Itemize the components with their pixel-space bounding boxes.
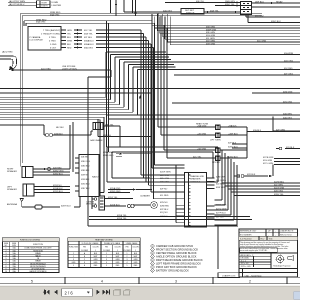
svg-text:HEAT MAP LEGEND: HEAT MAP LEGEND xyxy=(95,239,113,242)
svg-text:(A) 62TGB BLU: (A) 62TGB BLU xyxy=(9,3,25,6)
table fuse block legend xyxy=(3,238,60,273)
svg-text:62YP BLU: 62YP BLU xyxy=(216,212,226,214)
svg-text:MICROPHONE AUX: MICROPHONE AUX xyxy=(30,265,46,268)
svg-text:62YB GRN: 62YB GRN xyxy=(263,157,274,159)
svg-text:LOADER H2O E: LOADER H2O E xyxy=(280,230,294,233)
camera pin wires xyxy=(61,30,66,48)
title block xyxy=(239,229,298,277)
svg-text:CARRIER CAB GROUND STUD: CARRIER CAB GROUND STUD xyxy=(156,244,193,248)
svg-text:MICROPHONE AUX: MICROPHONE AUX xyxy=(30,262,46,265)
svg-text:FRONT SECTION GROUND BLOCK: FRONT SECTION GROUND BLOCK xyxy=(156,247,198,251)
svg-text:62BA GND: 62BA GND xyxy=(103,151,114,154)
svg-text:LIFT TURN: LIFT TURN xyxy=(210,139,221,141)
svg-text:62M GRN: 62M GRN xyxy=(216,176,226,178)
svg-text:62SF NO: 62SF NO xyxy=(53,185,62,187)
loader lug box xyxy=(218,273,240,278)
svg-text:FUNCTION: FUNCTION xyxy=(33,244,43,246)
riser arrow xyxy=(115,2,117,5)
svg-text:1: 1 xyxy=(95,250,96,252)
svg-text:WHT: WHT xyxy=(134,256,138,258)
wire 62A BLK out xyxy=(247,131,300,133)
svg-text:62B RED: 62B RED xyxy=(53,167,62,169)
svg-text:1: 1 xyxy=(73,253,74,255)
btn prev page xyxy=(54,290,57,295)
staircase risers to left bundle xyxy=(106,52,138,115)
svg-text:1: 1 xyxy=(127,253,128,255)
junction dot riser xyxy=(135,13,137,15)
svg-text:5: 5 xyxy=(152,260,153,262)
svg-text:62T BLK: 62T BLK xyxy=(216,216,225,218)
wire bracket right 62P xyxy=(273,117,300,132)
svg-text:CLEANER: CLEANER xyxy=(140,195,150,198)
svg-text:62ZW BLU: 62ZW BLU xyxy=(274,181,285,183)
svg-text:4BC BLK: 4BC BLK xyxy=(56,127,65,129)
btn next page xyxy=(97,290,100,295)
svg-text:LEFT REAR FRAME GROUND BLOCK: LEFT REAR FRAME GROUND BLOCK xyxy=(156,261,201,265)
svg-text:63BC YEL: 63BC YEL xyxy=(225,4,236,6)
svg-text:3: 3 xyxy=(106,259,107,261)
junction dot xyxy=(12,69,14,71)
wire 65A ORG xyxy=(22,15,262,17)
svg-text:62BU ORG: 62BU ORG xyxy=(81,161,91,163)
big rect pair top-left corner xyxy=(107,147,218,152)
frame bottom line xyxy=(0,277,300,284)
wire loader drop xyxy=(217,226,219,269)
wire 62A ORG to switch xyxy=(124,11,181,13)
svg-text:62DB YEL: 62DB YEL xyxy=(117,215,128,217)
svg-text:61D GRN: 61D GRN xyxy=(257,41,267,43)
labels top-left xyxy=(9,0,61,24)
svg-text:62B ORG: 62B ORG xyxy=(274,190,283,192)
fan horizontals xyxy=(106,52,300,70)
wire 63W YEL from switch xyxy=(204,11,240,13)
svg-text:62SB BLK: 62SB BLK xyxy=(53,188,63,190)
svg-text:62BG GND: 62BG GND xyxy=(110,191,121,193)
relay K1 xyxy=(241,2,252,15)
svg-text:CHARGE GRD: CHARGE GRD xyxy=(190,175,205,178)
svg-text:WHT: WHT xyxy=(116,256,120,258)
wire 61 long 103 xyxy=(172,102,300,104)
svg-text:62P BLU: 62P BLU xyxy=(160,209,169,211)
wire 62DF YEL xyxy=(105,198,134,200)
svg-text:+NB GRN: +NB GRN xyxy=(197,125,207,127)
antenna plug xyxy=(35,205,42,209)
svg-text:WRN: WRN xyxy=(67,40,72,42)
svg-text:CAD - Solid Edge: CAD - Solid Edge xyxy=(245,274,263,277)
svg-text:62BD BLK: 62BD BLK xyxy=(228,156,238,158)
big rect bottoms xyxy=(107,178,218,182)
svg-text:CLOSER: CLOSER xyxy=(81,250,89,252)
svg-text:GAS DISABLE: GAS DISABLE xyxy=(90,139,103,142)
charge guard left pin bus xyxy=(175,165,177,223)
svg-text:62N NO: 62N NO xyxy=(160,202,168,204)
svg-text:5: 5 xyxy=(127,265,128,267)
wire 63BC BLK xyxy=(248,15,300,23)
btn snapshot disabled xyxy=(114,289,131,295)
svg-text:DECIMAL: DECIMAL xyxy=(241,257,249,260)
svg-text:63A ORG: 63A ORG xyxy=(84,46,93,49)
wire bend to lower left xyxy=(24,21,26,26)
op bracket strobe arrow xyxy=(0,56,17,69)
wire 62T left xyxy=(0,92,152,94)
svg-text:10: 10 xyxy=(5,271,7,273)
wire 62DA GND xyxy=(108,189,133,191)
wire 62A GRN xyxy=(107,114,301,116)
ground legend list xyxy=(151,244,203,273)
CO detector block xyxy=(99,196,105,210)
svg-text:SWITCH: SWITCH xyxy=(186,13,195,15)
svg-text:3: 3 xyxy=(127,259,128,261)
wire 62YL drop xyxy=(272,165,274,177)
CO labels xyxy=(86,151,150,220)
right bundle labels xyxy=(206,27,294,132)
scroll corner grip xyxy=(294,292,301,300)
svg-text:7 TRIG (BACKUP): 7 TRIG (BACKUP) xyxy=(43,29,60,32)
svg-text:4HD YEL: 4HD YEL xyxy=(105,124,114,126)
svg-text:62F NO: 62F NO xyxy=(160,188,168,190)
circle spk xyxy=(48,168,51,171)
svg-text:62BY BLU: 62BY BLU xyxy=(61,205,71,207)
wire bottom bus xyxy=(88,175,238,226)
wire w3 bends down xyxy=(152,21,185,168)
svg-text:5: 5 xyxy=(73,265,74,267)
arrow 62R xyxy=(269,175,272,177)
svg-text:62C YEL: 62C YEL xyxy=(193,156,202,158)
btn first page xyxy=(43,290,50,295)
charge guard right pin wires xyxy=(207,178,215,218)
wire 62BY BLU xyxy=(42,197,80,207)
svg-text:SPEAKER: SPEAKER xyxy=(7,188,17,191)
svg-text:63H GRN: 63H GRN xyxy=(206,43,216,45)
svg-text:E/O NUMBER: E/O NUMBER xyxy=(240,234,252,236)
svg-text:63BA BLU: 63BA BLU xyxy=(84,43,94,46)
wire 62DB BLK xyxy=(105,205,127,207)
svg-text:62B RED: 62B RED xyxy=(81,157,89,159)
svg-text:62P GRN: 62P GRN xyxy=(276,129,285,131)
relay area labels xyxy=(163,0,283,23)
svg-text:1: 1 xyxy=(152,246,153,248)
top risers from page edge xyxy=(111,0,136,16)
svg-text:+HA BLK: +HA BLK xyxy=(228,124,237,127)
turn module wires right xyxy=(220,127,247,158)
svg-text:2: 2 xyxy=(249,280,251,284)
svg-text:ANGLE OPTION GROUND BLOCK: ANGLE OPTION GROUND BLOCK xyxy=(156,254,197,258)
svg-text:MONOXIDE: MONOXIDE xyxy=(86,204,97,206)
svg-text:2 / 6: 2 / 6 xyxy=(65,290,74,295)
svg-text:RED: RED xyxy=(67,47,72,49)
svg-text:USE STROBE: USE STROBE xyxy=(62,66,76,68)
big rect verticals xyxy=(107,147,218,182)
svg-text:62SD BLU: 62SD BLU xyxy=(81,184,90,186)
svg-text:63E GRN: 63E GRN xyxy=(206,32,215,34)
charge guard left pin wires xyxy=(176,175,185,223)
svg-text:61M GRN: 61M GRN xyxy=(283,91,293,93)
svg-text:63W YEL: 63W YEL xyxy=(210,10,220,12)
svg-text:RIGHT REAR FRAME GROUND BLOCK: RIGHT REAR FRAME GROUND BLOCK xyxy=(156,258,203,262)
svg-text:62BB BLK: 62BB BLK xyxy=(54,133,63,135)
gas block riser xyxy=(97,119,99,123)
svg-text:REFERENCE ONLY: REFERENCE ONLY xyxy=(240,231,257,233)
svg-text:WHT: WHT xyxy=(94,256,98,258)
svg-text:62L RED: 62L RED xyxy=(160,195,169,197)
svg-text:62A BLK: 62A BLK xyxy=(253,129,262,132)
svg-text:63T BLU: 63T BLU xyxy=(84,37,93,39)
svg-text:.XXX ± .005: .XXX ± .005 xyxy=(241,266,251,268)
svg-text:5: 5 xyxy=(31,280,33,284)
svg-text:5: 5 xyxy=(106,265,107,267)
speaker left wires xyxy=(34,187,70,193)
svg-text:62BS BLK: 62BS BLK xyxy=(81,170,90,172)
svg-text:+2B GRN: +2B GRN xyxy=(197,133,206,135)
svg-text:63BC BLK: 63BC BLK xyxy=(271,21,281,23)
svg-text:61K RED: 61K RED xyxy=(284,68,293,70)
svg-text:CLOSER: CLOSER xyxy=(103,250,111,252)
connector feed verticals xyxy=(141,30,154,199)
svg-text:19 PLUG W/ 3 CABLE: 19 PLUG W/ 3 CABLE xyxy=(82,242,100,245)
wire 62R BLK xyxy=(234,175,240,177)
right 62Z wires xyxy=(222,183,300,196)
wire 63E YEL top xyxy=(165,2,241,4)
junction arrow gnd upper xyxy=(120,153,123,155)
wire 62BG GND upper xyxy=(116,156,122,158)
svg-text:SPEAKER: SPEAKER xyxy=(7,170,17,173)
wire 62A ORG xyxy=(109,118,301,120)
wire 62DB YEL low2 xyxy=(89,219,252,221)
right bundle wires 63 group xyxy=(152,25,300,45)
svg-text:65A ORG: 65A ORG xyxy=(50,13,60,16)
svg-text:63G GRN: 63G GRN xyxy=(206,35,216,37)
viewer toolbar xyxy=(0,285,300,300)
inline connector circles xyxy=(127,204,130,207)
svg-text:SPICER: SPICER xyxy=(212,162,220,164)
charge guard labels xyxy=(160,122,295,218)
svg-text:62Z BLU: 62Z BLU xyxy=(216,184,225,186)
svg-text:FUSE: FUSE xyxy=(12,243,16,245)
radio box xyxy=(79,155,99,197)
wire 64HD YEL xyxy=(103,126,120,147)
svg-text:4: 4 xyxy=(106,262,107,264)
wire 62A YEL xyxy=(91,130,152,137)
svg-text:LIGHTER: LIGHTER xyxy=(52,5,62,7)
svg-text:62LK RED: 62LK RED xyxy=(41,68,51,70)
svg-text:3: 3 xyxy=(73,259,74,261)
svg-text:62SD BLU: 62SD BLU xyxy=(53,191,63,193)
svg-text:ANGULAR ± 1°: ANGULAR ± 1° xyxy=(241,254,254,257)
svg-text:62DH GRN: 62DH GRN xyxy=(160,171,171,173)
svg-text:3 TRIG: 3 TRIG xyxy=(49,37,56,39)
svg-text:63C BLU: 63C BLU xyxy=(255,15,264,17)
svg-text:LIGHT OPTION: LIGHT OPTION xyxy=(62,69,77,71)
svg-text:ANTENNA: ANTENNA xyxy=(7,203,18,206)
wire 62P BLK up xyxy=(232,132,247,149)
svg-text:RELAY: RELAY xyxy=(276,0,283,3)
arrow pair det net xyxy=(207,11,236,13)
svg-text:62ZX GRN: 62ZX GRN xyxy=(274,187,285,189)
svg-text:1: 1 xyxy=(135,250,136,252)
gas disable block xyxy=(93,123,103,130)
svg-text:6 OUT: 6 OUT xyxy=(50,47,57,49)
svg-text:BLK: BLK xyxy=(67,44,72,46)
svg-text:3-D Number: 3-D Number xyxy=(240,237,252,240)
bundle arrow junction xyxy=(139,95,141,98)
svg-text:63C YEL: 63C YEL xyxy=(84,30,93,32)
svg-text:1: 1 xyxy=(106,253,107,255)
svg-text:Third Angle Projection: Third Angle Projection xyxy=(273,265,291,268)
wire WRB RED xyxy=(20,12,262,14)
svg-text:PROX GRY BOX GROUND BLOCK: PROX GRY BOX GROUND BLOCK xyxy=(156,265,197,269)
svg-text:62YY ORG: 62YY ORG xyxy=(216,204,227,206)
svg-text:BLU: BLU xyxy=(67,37,72,39)
wire 62DB YEL low1 xyxy=(89,216,250,218)
svg-text:LCD DISPLAY: LCD DISPLAY xyxy=(30,39,44,42)
svg-text:62BU ORG: 62BU ORG xyxy=(53,170,64,172)
wire 62G GRN xyxy=(274,161,300,163)
svg-text:CONSOLE: CONSOLE xyxy=(190,181,201,183)
svg-text:61N ORG: 61N ORG xyxy=(283,101,293,103)
svg-text:+5B GRN: +5B GRN xyxy=(197,148,206,150)
svg-text:SPARE: SPARE xyxy=(35,252,41,255)
svg-text:62Q NO: 62Q NO xyxy=(160,212,168,214)
svg-text:62R BLK: 62R BLK xyxy=(247,174,256,176)
svg-text:4: 4 xyxy=(101,280,103,284)
terminal block dome lighter xyxy=(37,1,51,8)
svg-text:62BD BLU: 62BD BLU xyxy=(53,173,63,175)
svg-text:62BY BLU: 62BY BLU xyxy=(81,188,90,190)
svg-text:6: 6 xyxy=(152,263,153,265)
third angle projection symbol xyxy=(276,255,294,264)
camera output wires to radio feed verticals xyxy=(96,30,154,48)
btn last page xyxy=(103,290,110,295)
svg-text:BATTERY GROUND BLOCK: BATTERY GROUND BLOCK xyxy=(156,268,189,272)
cleaner motor symbol xyxy=(151,202,158,209)
svg-text:CENTER PANEL GROUND BLOCK: CENTER PANEL GROUND BLOCK xyxy=(156,251,197,255)
verticals center-right to turn modules xyxy=(158,13,215,158)
svg-text:CLOSER: CLOSER xyxy=(124,250,132,252)
wire 63BC YEL to relay xyxy=(215,5,241,7)
svg-text:62W GRN: 62W GRN xyxy=(216,187,226,189)
svg-text:62S BLK: 62S BLK xyxy=(286,147,295,149)
gas labels xyxy=(54,124,114,142)
svg-text:62Z GRN: 62Z GRN xyxy=(274,184,283,186)
charge guard connector J2 xyxy=(185,173,207,228)
speaker right wires xyxy=(33,169,70,175)
svg-text:62B ORG: 62B ORG xyxy=(160,182,169,184)
svg-text:WRL 64 72 64: WRL 64 72 64 xyxy=(280,234,291,236)
wire 62S BLK xyxy=(276,148,300,150)
svg-text:61F ORG: 61F ORG xyxy=(284,73,293,75)
collector vertical xyxy=(246,127,248,158)
svg-text:63W YEL: 63W YEL xyxy=(84,33,94,35)
wire DBP BLU xyxy=(252,2,301,4)
grid verticals right of connector xyxy=(222,150,237,225)
svg-text:CHARGER: CHARGER xyxy=(190,178,201,181)
strobe wire 62LK RED xyxy=(13,70,112,175)
svg-text:ances and angular plus TOLS UN: ances and angular plus TOLS UNL. xyxy=(240,249,268,252)
svg-text:GRN: GRN xyxy=(67,30,72,32)
svg-text:62D GRN: 62D GRN xyxy=(160,175,170,177)
wire 63C BLU xyxy=(246,15,300,18)
svg-text:SPARE: SPARE xyxy=(35,260,41,263)
speaker labels xyxy=(7,157,99,208)
switch DET NET xyxy=(181,9,204,15)
svg-text:62A YEL: 62A YEL xyxy=(103,134,112,137)
svg-text:62R NO: 62R NO xyxy=(160,216,168,218)
table heat map legend xyxy=(68,238,140,268)
svg-text:62G GRN: 62G GRN xyxy=(263,160,273,162)
svg-text:2: 2 xyxy=(152,249,153,251)
svg-text:COLOR: COLOR xyxy=(132,247,139,249)
left bundle wires xyxy=(0,97,138,120)
svg-text:2: 2 xyxy=(73,256,74,258)
svg-text:62A ORG: 62A ORG xyxy=(283,116,292,119)
svg-text:62BD BLU: 62BD BLU xyxy=(81,166,90,168)
grid staircase bottoms xyxy=(215,200,238,225)
camera arrow connectors xyxy=(74,30,82,48)
svg-text:3 WIRE CABLE: 3 WIRE CABLE xyxy=(126,242,139,245)
svg-text:P CAMERA: P CAMERA xyxy=(30,36,41,39)
svg-text:EXSTR: EXSTR xyxy=(42,6,49,8)
svg-text:8: 8 xyxy=(152,270,153,272)
wire 61M GRN xyxy=(252,92,300,94)
svg-text:63V GRN: 63V GRN xyxy=(206,41,215,43)
wire relay out 2 xyxy=(252,6,301,8)
turn module boxes xyxy=(216,125,221,161)
antenna symbol xyxy=(20,199,35,208)
svg-text:62BD BLK: 62BD BLK xyxy=(228,146,238,148)
svg-text:RIGHT: RIGHT xyxy=(42,2,48,4)
svg-text:1: 1 xyxy=(117,250,118,252)
svg-text:DBP BLU: DBP BLU xyxy=(255,1,264,3)
svg-text:+2BH BLK: +2BH BLK xyxy=(228,133,238,135)
wire 65B RED xyxy=(24,21,155,23)
svg-text:3: 3 xyxy=(152,253,153,255)
svg-text:(A) 62 RED: (A) 62 RED xyxy=(2,51,13,54)
svg-text:2: 2 xyxy=(127,256,128,258)
wire 62 long left xyxy=(0,88,300,90)
wire 62YL GRN xyxy=(274,164,300,166)
wire 62BG GND xyxy=(108,192,130,194)
svg-text:63B GRN: 63B GRN xyxy=(206,27,215,29)
camera box labels xyxy=(30,29,95,71)
svg-text:(A) 62TR1 WRN: (A) 62TR1 WRN xyxy=(9,0,25,3)
svg-text:SIZE: SIZE xyxy=(12,245,16,247)
svg-text:PIGTAIL W/ 3 CABLE: PIGTAIL W/ 3 CABLE xyxy=(104,242,121,245)
svg-text:62M RED: 62M RED xyxy=(160,205,170,207)
svg-text:61B ORG: 61B ORG xyxy=(284,60,293,62)
svg-text:62SB BLK: 62SB BLK xyxy=(81,179,90,181)
svg-text:COLOR: COLOR xyxy=(92,247,99,249)
svg-text:2 TRIG(LIFT TURN): 2 TRIG(LIFT TURN) xyxy=(41,33,60,35)
svg-text:63E YEL: 63E YEL xyxy=(196,1,205,3)
svg-text:63BF GRN: 63BF GRN xyxy=(206,29,217,31)
svg-text:62BU YEL: 62BU YEL xyxy=(274,194,285,196)
svg-text:65A ORG: 65A ORG xyxy=(36,21,46,24)
svg-text:62YL GRN: 62YL GRN xyxy=(263,163,273,165)
svg-text:4: 4 xyxy=(127,262,128,264)
vertical pair 106/108 xyxy=(107,21,109,152)
speaker right box xyxy=(22,167,33,178)
svg-text:COLOR: COLOR xyxy=(114,247,121,249)
camera display box U1 xyxy=(28,27,61,51)
svg-text:FUSE BLOCK LEGEND: FUSE BLOCK LEGEND xyxy=(20,240,41,242)
arrow spk xyxy=(44,168,47,170)
svg-text:62DB BLK: 62DB BLK xyxy=(110,204,120,206)
bundle risers from top bus xyxy=(152,14,170,45)
svg-text:5 GND: 5 GND xyxy=(50,44,57,46)
svg-text:62BG GND: 62BG GND xyxy=(103,155,114,157)
svg-text:63BA BLU: 63BA BLU xyxy=(84,39,94,42)
junction arrow gnd xyxy=(133,188,136,190)
